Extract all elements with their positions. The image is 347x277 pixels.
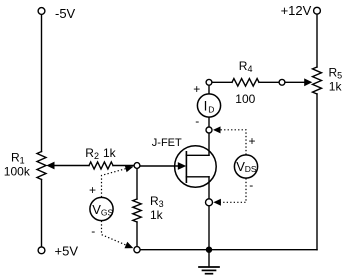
svg-text:-: - (195, 114, 199, 128)
svg-text:1k: 1k (150, 208, 164, 222)
svg-text:R2: R2 (85, 146, 99, 161)
svg-text:R3: R3 (150, 194, 164, 209)
svg-text:1k: 1k (329, 80, 343, 94)
svg-text:+: + (249, 134, 256, 148)
svg-text:I: I (204, 99, 208, 114)
svg-text:-5V: -5V (55, 6, 76, 21)
svg-text:R5: R5 (329, 66, 343, 81)
svg-text:R1: R1 (11, 151, 25, 166)
svg-text:J-FET: J-FET (152, 137, 182, 149)
svg-text:+12V: +12V (281, 3, 312, 18)
svg-text:D: D (208, 105, 214, 115)
svg-text:+: + (193, 82, 200, 96)
svg-text:-: - (91, 224, 95, 238)
svg-text:+: + (89, 183, 96, 197)
svg-text:GS: GS (101, 207, 114, 217)
svg-text:100k: 100k (4, 165, 31, 179)
svg-text:1k: 1k (103, 146, 117, 160)
svg-text:DS: DS (245, 164, 257, 174)
svg-text:-: - (249, 178, 253, 192)
svg-text:100: 100 (235, 92, 255, 106)
svg-text:R4: R4 (239, 59, 253, 74)
svg-text:+5V: +5V (55, 244, 79, 259)
